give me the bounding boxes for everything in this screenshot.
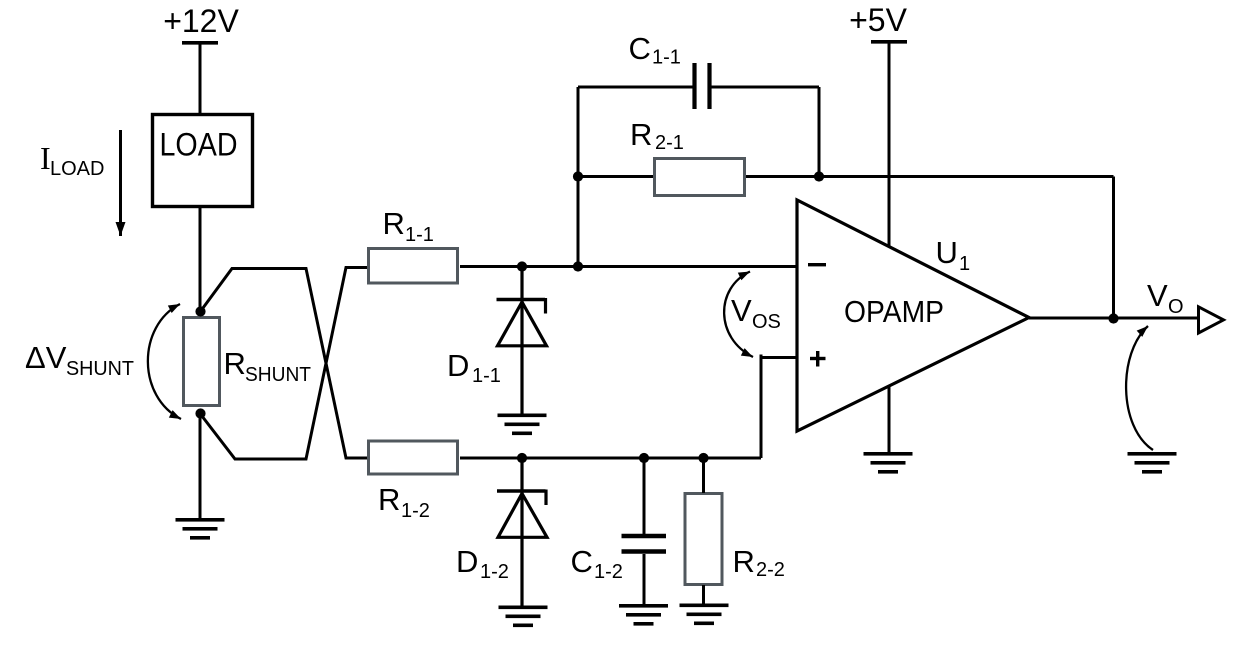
- svg-text:1-2: 1-2: [401, 500, 430, 522]
- svg-text:R: R: [383, 206, 405, 241]
- svg-text:+12V: +12V: [163, 3, 239, 39]
- svg-text:SHUNT: SHUNT: [245, 364, 311, 386]
- svg-text:OS: OS: [752, 311, 781, 333]
- svg-text:2-1: 2-1: [655, 132, 684, 154]
- svg-text:2-2: 2-2: [756, 559, 785, 581]
- svg-text:1-2: 1-2: [480, 561, 509, 583]
- svg-text:R: R: [224, 346, 246, 381]
- svg-text:D: D: [456, 544, 478, 579]
- svg-text:1-1: 1-1: [405, 224, 434, 246]
- svg-text:U: U: [936, 235, 958, 270]
- svg-text:+5V: +5V: [849, 2, 907, 38]
- svg-text:LOAD: LOAD: [50, 158, 104, 180]
- svg-text:R: R: [630, 117, 652, 152]
- svg-text:1-2: 1-2: [594, 561, 623, 583]
- svg-text:1-1: 1-1: [652, 47, 681, 69]
- svg-text:C: C: [629, 31, 651, 66]
- svg-text:R: R: [378, 482, 400, 517]
- svg-text:O: O: [1168, 296, 1184, 318]
- svg-text:V: V: [1147, 278, 1168, 313]
- svg-text:OPAMP: OPAMP: [844, 294, 944, 329]
- svg-text:1-1: 1-1: [472, 365, 501, 387]
- svg-text:SHUNT: SHUNT: [66, 358, 134, 380]
- svg-text:V: V: [731, 293, 752, 328]
- svg-text:C: C: [571, 544, 593, 579]
- svg-text:ΔV: ΔV: [25, 340, 67, 375]
- svg-text:1: 1: [959, 253, 970, 275]
- svg-text:LOAD: LOAD: [160, 127, 238, 163]
- svg-text:D: D: [447, 348, 469, 383]
- svg-text:R: R: [733, 544, 755, 579]
